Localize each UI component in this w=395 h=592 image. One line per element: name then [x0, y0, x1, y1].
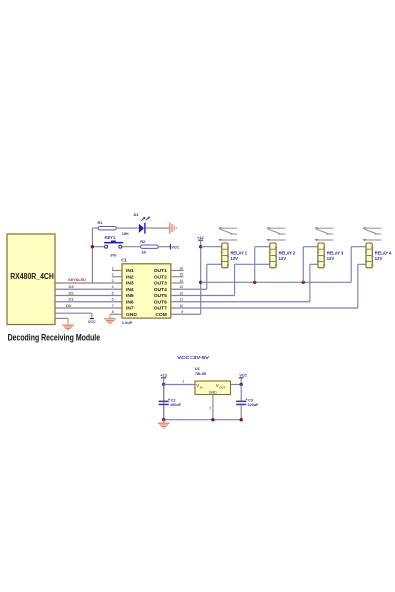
svg-text:IN6: IN6	[126, 299, 134, 305]
svg-text:+12: +12	[160, 372, 168, 377]
IC C1 body	[122, 264, 171, 318]
junction +12/Vin	[162, 383, 165, 386]
svg-text:11: 11	[179, 298, 183, 302]
svg-text:RELAY 4: RELAY 4	[375, 250, 392, 255]
wire Vin	[164, 384, 195, 386]
svg-text:R1: R1	[98, 220, 104, 225]
wire riser relay2	[254, 247, 256, 283]
junction rail left	[162, 418, 165, 421]
pin numbers 16-9	[179, 266, 183, 314]
pin number 2	[209, 406, 211, 410]
wire coil4 bottom	[358, 263, 366, 265]
wire R2 to VCC	[158, 246, 170, 248]
svg-text:GND: GND	[209, 391, 217, 395]
ground (sideways, LED)	[170, 222, 176, 234]
svg-text:OUT: OUT	[219, 385, 226, 389]
junction rail right	[240, 418, 243, 421]
wire +12 to rail	[163, 378, 165, 420]
svg-text:6: 6	[112, 298, 114, 302]
switch KEY1	[104, 235, 123, 248]
svg-text:OUT7: OUT7	[154, 306, 167, 312]
svg-text:D1: D1	[69, 297, 75, 302]
wire +12 bus	[201, 281, 352, 283]
wire C2 bottom	[163, 405, 165, 420]
svg-text:IN: IN	[200, 385, 203, 389]
pin names IN1-IN7 GND	[126, 268, 137, 318]
pin 16 stub	[171, 270, 184, 272]
svg-text:9: 9	[181, 310, 183, 314]
wire D2	[55, 295, 122, 297]
power port +12 (relays)	[197, 235, 205, 240]
svg-text:78L05: 78L05	[195, 371, 207, 376]
svg-text:10: 10	[179, 304, 183, 308]
label U1	[195, 366, 201, 371]
pin 2 stub	[112, 276, 122, 278]
wire U1 GND	[212, 395, 214, 420]
pin 14 stub	[171, 282, 184, 284]
svg-text:VCC=3V-5V: VCC=3V-5V	[177, 355, 210, 361]
svg-text:13: 13	[179, 285, 183, 289]
svg-text:IN2: IN2	[126, 274, 134, 280]
svg-text:KEY1: KEY1	[105, 235, 116, 240]
wire module VCC pin	[55, 313, 92, 318]
svg-text:12: 12	[179, 291, 183, 295]
label 6*6	[111, 252, 118, 257]
pin number 1	[183, 380, 185, 384]
svg-text:7: 7	[112, 304, 114, 308]
relay RELAY 2 12V	[267, 227, 296, 268]
caption Decoding Receiving Module	[8, 333, 101, 343]
junction bus/relay2	[253, 281, 256, 284]
svg-text:RELAY 1: RELAY 1	[231, 250, 248, 255]
junction +12/bus	[199, 281, 202, 284]
wire OUT5 to relay2	[171, 264, 235, 295]
svg-text:C1: C1	[121, 258, 127, 263]
label D2	[69, 290, 75, 295]
wire node to KEY1	[94, 246, 105, 248]
wire riser relay4	[350, 247, 352, 283]
wire D1 to ground	[146, 227, 170, 229]
svg-text:IN5: IN5	[126, 293, 134, 299]
power port VCC (regulator)	[239, 373, 248, 384]
wire coil3 top	[303, 246, 318, 248]
svg-text:8: 8	[112, 310, 114, 314]
label D3	[69, 284, 75, 289]
ground (regulator)	[158, 420, 170, 428]
svg-text:RELAY 2: RELAY 2	[279, 250, 296, 255]
wire C2 top	[163, 385, 165, 401]
resistor R2	[140, 239, 158, 248]
svg-text:5: 5	[112, 291, 114, 295]
wire OUT6 to relay3	[171, 264, 310, 301]
wire coil4 top	[351, 246, 366, 248]
junction node KEY1/R1	[91, 245, 94, 248]
junction bus/relay3	[302, 281, 305, 284]
svg-text:12V: 12V	[279, 256, 287, 261]
svg-text:OUT6: OUT6	[154, 299, 167, 305]
pin names OUT1-OUT7 COM	[154, 268, 167, 318]
wire R1 to D1	[116, 227, 139, 229]
label 10K	[122, 231, 129, 236]
wire D3	[55, 288, 122, 290]
svg-text:OUT4: OUT4	[154, 287, 167, 293]
wire D0	[55, 307, 122, 309]
wire +12 vertical	[200, 240, 202, 314]
svg-text:1K: 1K	[141, 249, 146, 254]
label D1	[69, 297, 75, 302]
svg-text:D3: D3	[69, 284, 75, 289]
wire bottom rail	[164, 419, 242, 421]
wire coil3 bottom	[310, 263, 318, 265]
label VCC=3V-5V	[177, 355, 210, 361]
relay RELAY 4 12V	[363, 227, 392, 268]
wire riser relay3	[302, 247, 304, 283]
wire coil1 top	[201, 246, 222, 248]
ground (module)	[62, 318, 74, 330]
svg-text:+12: +12	[197, 235, 205, 240]
module RX480R_4CH	[7, 234, 55, 325]
svg-text:2: 2	[209, 406, 211, 410]
label C1	[121, 258, 127, 263]
wire module GND pin	[55, 317, 68, 319]
wire KEY&LED net (module pin to U2 pin 3)	[55, 282, 122, 284]
wire coil2 top	[255, 246, 270, 248]
svg-text:OUT5: OUT5	[154, 293, 167, 299]
svg-text:RELAY 3: RELAY 3	[327, 250, 344, 255]
svg-text:15: 15	[179, 273, 183, 277]
svg-text:12V: 12V	[327, 256, 335, 261]
wire KEY1 node vertical	[92, 228, 98, 283]
svg-text:IN1: IN1	[126, 268, 134, 274]
svg-text:D0: D0	[66, 303, 72, 308]
resistor R1	[98, 220, 117, 230]
wire OUT4 to relay1	[171, 264, 207, 289]
svg-text:VCC: VCC	[88, 320, 96, 324]
svg-text:VCC: VCC	[239, 373, 247, 377]
svg-text:GND: GND	[126, 312, 137, 318]
label 1.0uF	[122, 320, 133, 325]
wire Vout	[231, 384, 242, 386]
pin 15 stub	[171, 276, 184, 278]
svg-text:2: 2	[112, 273, 114, 277]
svg-text:4: 4	[112, 285, 114, 289]
svg-text:C2: C2	[171, 398, 176, 402]
svg-text:IN7: IN7	[126, 306, 134, 312]
svg-text:12V: 12V	[231, 256, 239, 261]
svg-text:16: 16	[179, 266, 183, 270]
svg-text:R2: R2	[140, 239, 146, 244]
label D1	[134, 212, 140, 217]
svg-text:1.0uF: 1.0uF	[122, 320, 133, 325]
label KEY&LED	[68, 277, 86, 282]
label 1K	[141, 249, 146, 254]
svg-text:14: 14	[179, 279, 183, 283]
relay RELAY 3 12V	[315, 227, 344, 268]
junction Vout/C3	[240, 383, 243, 386]
svg-text:12V: 12V	[375, 256, 383, 261]
svg-text:OUT1: OUT1	[154, 268, 167, 274]
capacitor C3	[236, 398, 259, 407]
svg-text:VCC: VCC	[171, 245, 179, 249]
svg-text:1: 1	[183, 380, 185, 384]
power port VCC (module)	[88, 319, 96, 324]
svg-text:220uF: 220uF	[248, 403, 260, 407]
LED D1	[139, 217, 150, 234]
wire KEY1 to R2	[122, 246, 141, 248]
power port VCC (R2)	[170, 244, 179, 250]
svg-text:OUT3: OUT3	[154, 281, 167, 287]
svg-text:C3: C3	[248, 398, 253, 402]
svg-text:10K: 10K	[122, 231, 129, 236]
wire GND pin 8	[110, 313, 122, 315]
svg-text:COM: COM	[155, 312, 166, 318]
capacitor C2	[159, 398, 182, 407]
pin 1 stub	[112, 270, 122, 272]
svg-text:KEY&LED: KEY&LED	[68, 277, 86, 282]
svg-text:RX480R_4CH: RX480R_4CH	[10, 272, 54, 281]
wire C3 bottom	[240, 405, 242, 420]
svg-text:IN3: IN3	[126, 281, 134, 287]
relay RELAY 1 12V	[219, 227, 248, 268]
svg-text:D2: D2	[69, 290, 75, 295]
pin numbers 1-8	[112, 266, 114, 314]
label 78L05	[195, 371, 207, 376]
label D0	[66, 303, 72, 308]
svg-text:D1: D1	[134, 212, 140, 217]
junction +12/coil1	[199, 245, 202, 248]
junction rail GND	[211, 418, 214, 421]
svg-text:1: 1	[112, 266, 114, 270]
wire OUT7 to relay4	[171, 264, 358, 308]
wire coil1 bottom	[207, 263, 222, 265]
power port +12 (regulator)	[160, 372, 168, 377]
svg-text:IN4: IN4	[126, 287, 134, 293]
wire coil2 bottom	[235, 263, 270, 265]
regulator U1 78L05	[195, 381, 231, 395]
svg-text:3: 3	[112, 279, 114, 283]
svg-text:OUT2: OUT2	[154, 274, 167, 280]
wire C3 top	[240, 385, 242, 401]
wire COM pin 9	[171, 313, 201, 315]
svg-text:100uF: 100uF	[170, 403, 182, 407]
svg-text:6*6: 6*6	[111, 252, 118, 257]
wire D1	[55, 301, 122, 303]
ground (C1 pin 8)	[104, 314, 116, 323]
svg-text:Decoding Receiving Module: Decoding Receiving Module	[8, 333, 101, 343]
